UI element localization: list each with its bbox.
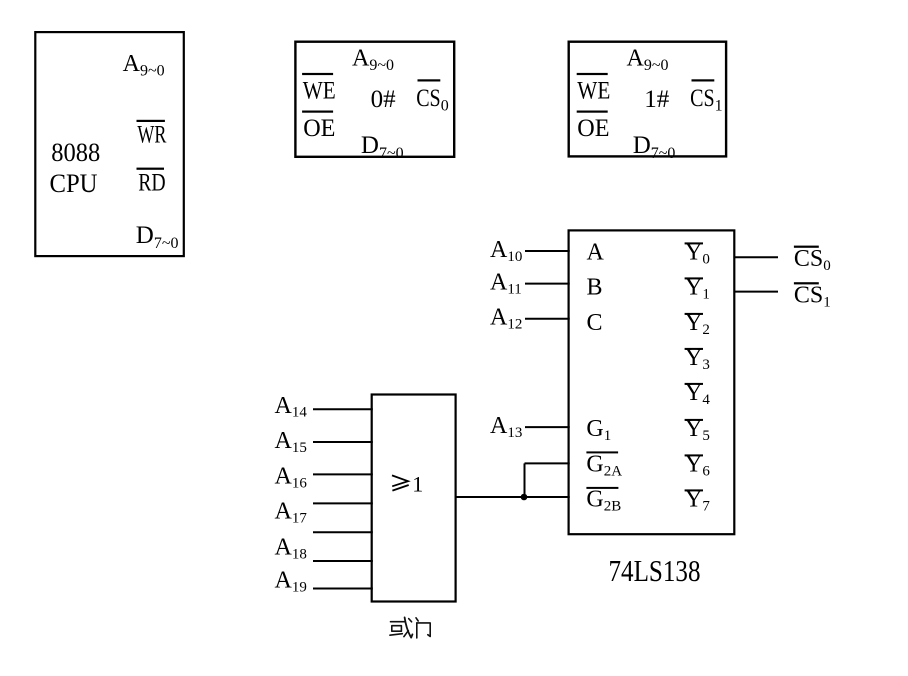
decoder pin Y2 (active low) [685,310,710,338]
svg-text:74LS138: 74LS138 [609,553,701,588]
wire riser from junction up [524,463,526,497]
junction node on G2B wire [521,494,528,501]
CPU pin label RD (active low) [137,168,166,197]
decoder pin Y3 (active low) [685,345,710,373]
decoder pin G2A (active low) [586,451,622,479]
svg-text:A: A [587,240,605,266]
svg-text:OE: OE [577,115,609,142]
wire A13 to decoder pin G1 [525,426,570,428]
net label CS1 (active low) [794,282,831,310]
decoder pin Y7 (active low) [685,487,711,515]
svg-text:1#: 1# [644,86,670,113]
wire junction to decoder pin G2A [525,462,570,464]
or-gate input wire 7 [313,588,373,590]
CPU U1 (8088) box [35,32,184,256]
chip1 pin label WE (active low) [577,73,611,104]
or-gate G1 box [372,395,456,602]
CPU pin label WR (active low) [137,120,167,149]
wire A10 to decoder pin A [525,250,570,252]
svg-text:C: C [587,310,603,336]
svg-text:OE: OE [303,115,335,142]
or-gate input wire 4 (A17) [313,502,373,504]
decoder pin Y5 (active low) [685,416,710,444]
decoder pin G2B (active low) [586,487,621,515]
svg-text:WE: WE [303,77,336,104]
or-gate input wire 2 (A15) [313,441,373,443]
svg-text:WR: WR [137,122,166,149]
memory chip 1# box [569,42,726,157]
svg-text:WE: WE [577,77,610,104]
decoder pin Y0 (active low) [685,240,710,268]
or-gate symbol >=1 [392,472,423,497]
wire decoder Y1 output to CS1 [734,291,778,293]
decoder pin Y1 (active low) [685,275,710,303]
wire decoder Y0 output to CS0 [734,256,778,258]
svg-text:1: 1 [412,472,423,497]
chip0 pin label OE (active low) [302,111,335,142]
memory chip 0# box [295,42,454,157]
svg-text:8088: 8088 [51,138,100,167]
chip1 pin label CS1 (active low) [690,79,723,114]
wire A11 to decoder pin B [525,283,570,285]
net label CS0 (active low) [794,246,831,274]
or-gate chinese caption (huo men) drawn as strokes [390,617,430,638]
or-gate input wire 6 (A19) [313,560,373,562]
svg-text:CPU: CPU [50,169,98,198]
chip0 pin label CS0 (active low) [416,79,449,114]
or-gate input wire 5 (A18) [313,531,373,533]
decoder U2 74LS138 box [569,230,735,534]
or-gate input wire 1 (A14) [313,408,373,410]
chip1 pin label OE (active low) [577,111,610,142]
svg-text:0#: 0# [371,86,397,113]
decoder pin Y6 (active low) [685,452,711,480]
decoder pin Y4 (active low) [685,380,711,408]
chip0 pin label WE (active low) [302,73,336,104]
svg-text:B: B [587,275,603,301]
wire or-gate output to decoder pin G2B [456,496,570,498]
wire A12 to decoder pin C [525,318,570,320]
or-gate input wire 3 (A16) [313,473,373,475]
svg-text:RD: RD [138,170,165,197]
